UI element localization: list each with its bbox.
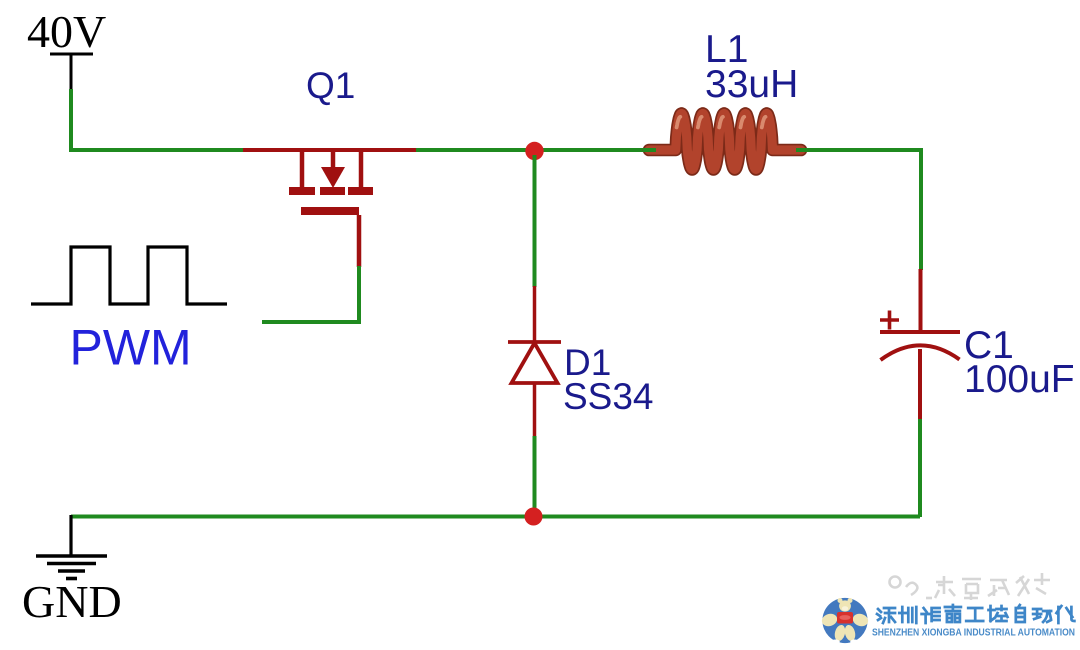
PWM waveform: [31, 247, 227, 304]
svg-text:Q1: Q1: [306, 65, 355, 106]
svg-text:GND: GND: [22, 576, 122, 627]
wire D1 cathode pin: [533, 286, 537, 341]
faint watermark: [890, 573, 1051, 600]
wire overlap right lead: [796, 148, 812, 152]
wire gate: [262, 266, 359, 322]
wire Q1 to node A: [416, 148, 535, 152]
node A junction dot: [525, 142, 543, 160]
wire node A down to D1: [533, 155, 537, 287]
ground: [36, 515, 107, 579]
svg-text:SS34: SS34: [563, 376, 654, 417]
node B junction dot: [525, 508, 543, 526]
svg-text:SHENZHEN XIONGBA INDUSTRIAL AU: SHENZHEN XIONGBA INDUSTRIAL AUTOMATION: [872, 628, 1075, 639]
svg-text:40V: 40V: [27, 6, 106, 57]
logo circle bear: [820, 598, 870, 644]
wire C1 to bottom rail: [918, 419, 922, 517]
wire D1 to node B: [533, 436, 537, 517]
wire D1 anode pin: [533, 383, 537, 437]
svg-text:PWM: PWM: [70, 320, 192, 376]
capacitor C1: [880, 311, 960, 361]
wire node A to L1: [535, 148, 652, 152]
inductor L1: [649, 114, 801, 170]
wire supply to Q1: [71, 89, 246, 150]
wire overlap left lead: [643, 148, 656, 152]
wire L1 to C1: [800, 150, 921, 270]
power bar symbol: [50, 53, 93, 56]
wire black power stub: [70, 54, 73, 90]
diode D1: [508, 342, 561, 383]
wire bottom rail: [71, 515, 920, 519]
wire C1 top pin: [919, 269, 923, 332]
svg-text:100uF: 100uF: [964, 358, 1075, 401]
wire C1 bottom pin: [918, 349, 922, 420]
transistor Q1: [243, 150, 417, 267]
svg-text:33uH: 33uH: [705, 63, 798, 106]
logo chinese text: [877, 605, 1074, 623]
